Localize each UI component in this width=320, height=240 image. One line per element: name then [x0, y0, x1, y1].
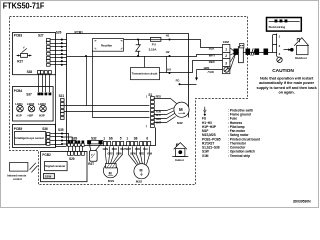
frame ground arrow: [195, 69, 198, 80]
wire H2 to X1M 2 WHT: [170, 55, 223, 57]
wires S27 to S26: [50, 40, 61, 65]
connector S29: [68, 152, 85, 156]
svg-text:PCB3: PCB3: [14, 34, 23, 38]
svg-text:S37: S37: [26, 93, 32, 97]
svg-text:GRN: GRN: [204, 66, 210, 70]
svg-text:Note that operation will resta: Note that operation will restart: [260, 76, 314, 80]
wire from node to S21 row: [86, 56, 88, 106]
wire S1 RED to fan motor: [154, 99, 177, 104]
svg-text:M2S: M2S: [136, 179, 142, 183]
rectifier: [93, 39, 124, 52]
wire FG: [180, 84, 197, 86]
svg-text:H3P: H3P: [39, 114, 45, 118]
svg-text:supply is turned off and then: supply is turned off and then back: [257, 86, 318, 90]
svg-text:S35: S35: [58, 128, 64, 132]
wires S8 to M2S: [129, 147, 150, 165]
svg-text:3.15A: 3.15A: [149, 48, 158, 52]
svg-text:S6: S6: [109, 136, 113, 140]
svg-text:M1F: M1F: [177, 121, 183, 125]
PCB2: [41, 152, 88, 182]
svg-text:ORG: ORG: [135, 148, 141, 151]
arrow to outdoor: [284, 48, 294, 52]
svg-text:Outdoor: Outdoor: [295, 56, 308, 60]
intelligent-eye sensor: [15, 132, 46, 145]
svg-text:R2T: R2T: [88, 162, 94, 166]
wire H3 from transmission circuit: [159, 72, 170, 74]
svg-text:PCB5: PCB5: [14, 127, 23, 131]
svg-text:H3: H3: [167, 68, 171, 72]
svg-text:3: 3: [225, 61, 227, 65]
field wiring legend box: [267, 18, 302, 32]
svg-text:M: M: [179, 107, 183, 112]
closed-end connector barrel: [239, 44, 244, 63]
outdoor house icon: [294, 38, 309, 55]
svg-text:Field wiring: Field wiring: [269, 25, 286, 29]
wires S35 to S28: [62, 134, 79, 145]
wires S28 to S29: [69, 146, 83, 151]
node dots: [137, 39, 139, 41]
svg-text:t°: t°: [23, 47, 25, 50]
svg-text:S29: S29: [69, 157, 75, 161]
svg-text:5: 5: [120, 136, 122, 140]
svg-text:PCB4: PCB4: [14, 89, 23, 93]
infrared remote control: [7, 163, 28, 182]
outdoor earth terminal: [277, 57, 282, 63]
pilot lamp LED1 H1P: [15, 102, 23, 118]
wire colour labels S6: [103, 148, 127, 156]
svg-text:H2: H2: [166, 50, 170, 54]
svg-text:X1M: X1M: [202, 154, 209, 158]
wire from S26 down left side: [56, 75, 67, 147]
wires S32 to R2T: [90, 145, 91, 151]
svg-text:2: 2: [225, 54, 227, 58]
svg-text:S27: S27: [38, 34, 44, 38]
svg-text:BLK: BLK: [209, 47, 215, 51]
svg-text:S28: S28: [72, 136, 78, 140]
svg-text:PCB1: PCB1: [75, 30, 84, 34]
svg-text:WHT: WHT: [156, 121, 162, 124]
svg-text:FU: FU: [152, 43, 156, 47]
svg-text:X1M: X1M: [223, 40, 230, 44]
svg-text:H1: H1: [166, 33, 170, 37]
outdoor terminal bracket: [273, 34, 278, 57]
svg-text:S1W: S1W: [45, 175, 52, 179]
svg-text:PCB2: PCB2: [42, 153, 51, 157]
wire S21 to S1 upper: [64, 105, 149, 107]
svg-text:Infrared remote: Infrared remote: [7, 173, 27, 177]
svg-text:on again.: on again.: [278, 91, 294, 95]
signal receiver: [45, 162, 68, 171]
wires S1 to fan motor: [154, 108, 176, 123]
legend protective earth: [203, 107, 253, 113]
wire earth GRN/YLW: [197, 69, 223, 71]
svg-text:M: M: [109, 172, 112, 176]
svg-text:RED: RED: [112, 148, 117, 151]
svg-text:S8: S8: [134, 136, 138, 140]
wire colour labels S8: [126, 148, 153, 156]
svg-text:BRN: BRN: [116, 153, 122, 156]
svg-text:S36: S36: [42, 127, 48, 131]
connector S38: [27, 70, 52, 74]
svg-text:BLU: BLU: [156, 114, 161, 117]
svg-text:ORG: ORG: [107, 153, 113, 156]
operation switch S1W: [44, 174, 55, 179]
PCB3: [13, 33, 56, 75]
pilot lamp LED3 H3P: [38, 102, 46, 118]
svg-text:YLW: YLW: [156, 111, 162, 114]
svg-text:ORG: ORG: [156, 118, 161, 121]
wire lower H2 run: [67, 56, 170, 58]
svg-text:1: 1: [126, 136, 128, 140]
wire from rectifier bottom down: [93, 51, 150, 118]
svg-text:control: control: [13, 177, 22, 181]
svg-text:Indoor: Indoor: [175, 158, 185, 162]
svg-text:S32: S32: [91, 136, 97, 140]
svg-text:H2P: H2P: [28, 114, 34, 118]
svg-text:t°: t°: [91, 154, 93, 157]
connector S37: [26, 93, 51, 97]
svg-text:1: 1: [103, 136, 105, 140]
wire break symbol: [251, 48, 255, 55]
wires S36 to S35: [50, 134, 62, 145]
svg-text:S21: S21: [59, 94, 65, 98]
svg-text:Signal receiver: Signal receiver: [45, 164, 65, 168]
wires S26 into PCB1: [62, 40, 67, 65]
wire S21 to S1 lower: [64, 111, 149, 113]
wires S6 to M1S: [106, 147, 123, 164]
thermistor R1T: [17, 47, 32, 64]
svg-text:1: 1: [225, 47, 227, 51]
wire H1 to X1M 1 BLK: [170, 40, 223, 48]
varistor: [136, 40, 141, 57]
wire H2 run to transmission circuit: [166, 56, 168, 73]
svg-text:automatically if the main powe: automatically if the main power: [259, 81, 315, 85]
swing motor M2S: [134, 164, 149, 184]
PCB4: [13, 87, 54, 122]
wire H3 to X1M 3 RED: [170, 61, 223, 73]
svg-text:M1S: M1S: [108, 179, 114, 183]
svg-text:/YLW: /YLW: [208, 70, 215, 74]
thermistor R2T: [88, 151, 97, 166]
svg-text:M: M: [140, 168, 143, 172]
svg-text:S26: S26: [56, 30, 62, 34]
wires S38 to S37: [39, 74, 50, 92]
field wiring line to outdoor: [234, 49, 273, 55]
pilot lamp LED2 H2P: [27, 102, 35, 118]
PCB5: [13, 125, 56, 148]
svg-text:RED: RED: [156, 95, 162, 99]
svg-text:RED: RED: [209, 60, 215, 64]
svg-text:S38: S38: [27, 70, 33, 74]
fan motor M1F: [174, 102, 189, 125]
indoor house icon: [172, 143, 188, 162]
svg-text:RED: RED: [139, 153, 144, 156]
svg-text:: Terminal strip: : Terminal strip: [228, 154, 250, 158]
svg-text:H1P: H1P: [16, 114, 22, 118]
remote signal waves: [30, 163, 38, 173]
svg-text:WHT: WHT: [209, 53, 216, 57]
caution text: [257, 68, 318, 95]
PCB1 outline: [67, 34, 189, 146]
wire rectifier to H1: [124, 39, 150, 41]
field wiring bundle hatch: [230, 48, 235, 69]
swing motor M1S: [103, 164, 117, 183]
svg-text:BLU: BLU: [143, 148, 148, 151]
svg-text:Intelligent-eye sensor: Intelligent-eye sensor: [15, 136, 44, 140]
terminal strip X1M: [223, 40, 231, 73]
indoor unit dashed border: [10, 17, 248, 185]
svg-text:FTKS50-71F: FTKS50-71F: [3, 0, 45, 10]
svg-text:3D039530N: 3D039530N: [293, 200, 311, 204]
legend frame ground: [204, 112, 251, 117]
svg-text:Rectifier: Rectifier: [101, 43, 113, 47]
svg-text:Transmission circuit: Transmission circuit: [132, 72, 158, 76]
svg-text:CAUTION: CAUTION: [272, 68, 294, 74]
fuse FU 3.15A: [149, 38, 161, 52]
transmission circuit: [131, 56, 160, 80]
svg-text:R1T: R1T: [17, 60, 23, 64]
svg-text:6: 6: [146, 136, 148, 140]
